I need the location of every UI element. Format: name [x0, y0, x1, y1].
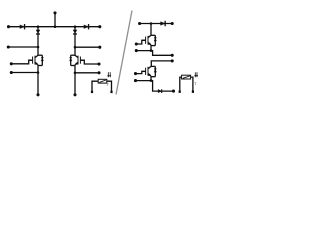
node leg1 bottom terminal — [36, 93, 39, 96]
wire leg1 collector drop — [37, 27, 39, 56]
transistor Q3 (IGBT w/ antiparallel diode) — [148, 35, 151, 37]
junction emitter leg2 — [74, 72, 77, 75]
wire M1 right lead — [107, 81, 112, 91]
node mid-right port B — [171, 59, 174, 62]
measurement block M2 body — [182, 75, 191, 79]
wire leg2 collector drop — [74, 27, 76, 56]
wire M2 right lead — [191, 77, 193, 91]
wire top lead (right converter) — [140, 23, 173, 25]
diode D7 on top lead — [161, 22, 166, 26]
wire emitter drop Q3 — [150, 45, 152, 51]
wire gate lead Q2 — [81, 60, 99, 64]
junction emitter leg1 — [37, 71, 40, 74]
svg-text:T: T — [194, 82, 196, 86]
wire leg1 bottom lead — [37, 73, 39, 95]
measurement block M1 body — [98, 79, 107, 83]
wire diagonal separator — [116, 11, 132, 95]
wire emitter drop Q2 — [74, 65, 76, 73]
arrow marker pair above M2 — [194, 72, 196, 76]
junction leg1 top — [37, 25, 40, 28]
wire top DC bus — [9, 26, 100, 28]
wire M2 left lead — [180, 77, 182, 91]
wire Q3 collector drop — [150, 24, 152, 36]
node M1 left pad — [91, 91, 93, 94]
measurement block M2 diagonal — [183, 76, 190, 78]
measurement block M1 diagonal — [99, 80, 106, 82]
node DC- output port (left converter) — [98, 25, 101, 28]
wire emitter drop Q1 — [37, 65, 39, 73]
diode D4 clamp (down) leg2 — [73, 30, 77, 33]
node emitter port leg1 — [10, 71, 13, 74]
junction collector tap leg1 — [37, 46, 40, 49]
transistor Q2 (IGBT mirrored w/ antiparallel diode) — [75, 55, 78, 57]
node emitter port leg2 — [97, 71, 100, 74]
node leg2 bottom terminal — [73, 93, 76, 96]
diode D3 clamp (down) leg1 — [36, 30, 40, 33]
wire M1 left lead — [92, 81, 98, 91]
node collector tap port leg1 — [7, 45, 10, 48]
wire gate lead Q3 — [136, 40, 145, 44]
node top terminal — [53, 11, 56, 14]
wire leg2 bottom lead — [74, 73, 76, 95]
wire collector tap leg2 — [75, 46, 100, 48]
node emitter port Q3 — [135, 49, 138, 52]
wire emitter tap leg2 — [75, 72, 99, 74]
wire Q4 collector lead — [151, 61, 172, 67]
node bottom-right port — [172, 90, 175, 93]
node top-left port (right converter) — [138, 22, 141, 25]
junction Q3 collector — [150, 22, 153, 25]
node emitter port Q4 — [134, 79, 137, 82]
diode D1 on top bus — [20, 25, 25, 29]
wire emitter drop Q4 — [150, 76, 152, 81]
diode D2 on top bus — [84, 25, 89, 29]
wire mid-bus riser — [54, 13, 56, 27]
arrow marker pair above M1 — [107, 72, 109, 76]
wire collector tap leg1 — [8, 46, 38, 48]
node DC+ input port (left converter) — [7, 25, 10, 28]
junction collector tap leg2 — [74, 46, 77, 49]
junction emitter Q3 — [150, 49, 153, 52]
junction mid-bus — [54, 25, 57, 28]
wire emitter tap Q3 — [136, 51, 172, 56]
node M1 right pad — [110, 91, 112, 94]
wire gate lead Q4 — [136, 71, 146, 73]
node M2 left pad — [179, 90, 181, 93]
node top-right port (right converter) — [171, 22, 174, 25]
node M2 right pad — [192, 90, 194, 93]
diode D8 on bottom return — [158, 89, 162, 92]
node gate port Q3 — [135, 42, 138, 45]
junction leg2 top — [74, 25, 77, 28]
junction emitter Q4 — [150, 79, 153, 82]
node gate port Q4 — [134, 72, 137, 75]
wire emitter tap leg1 — [11, 72, 38, 74]
node gate port Q2 — [97, 62, 100, 65]
node collector tap port leg2 — [98, 46, 101, 49]
wire gate lead Q1 — [11, 60, 32, 64]
wire emitter tap Q4 — [136, 81, 174, 92]
node mid-right port A — [171, 54, 174, 57]
transistor Q1 (IGBT w/ antiparallel diode) — [35, 55, 38, 57]
svg-text:T: T — [107, 83, 109, 87]
node gate port Q1 — [10, 62, 13, 65]
transistor Q4 (IGBT w/ antiparallel diode) — [148, 66, 151, 68]
